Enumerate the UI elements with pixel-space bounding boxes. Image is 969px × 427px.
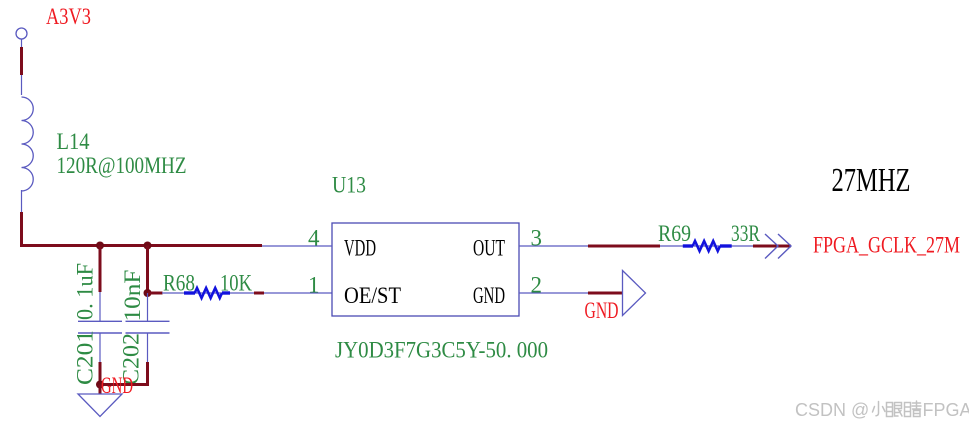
pin wire from R68 to U13 pin 1	[162, 292, 332, 294]
svg-text:0. 1uF: 0. 1uF	[73, 263, 98, 320]
svg-text:4: 4	[308, 225, 320, 250]
svg-text:U13: U13	[332, 173, 366, 198]
power port A3V3 terminal circle	[16, 28, 27, 39]
wire from R69 to output port	[753, 245, 791, 248]
wire from A3V3 terminal to L14	[21, 39, 23, 95]
op-amp U13 body	[332, 223, 519, 316]
wire stub from node to R68	[148, 292, 163, 295]
capacitor C202 symbol	[126, 293, 170, 363]
wire stub below C202	[146, 362, 149, 386]
wire stub to ground symbol	[99, 385, 102, 395]
ground symbol	[78, 394, 122, 417]
GND port arrow	[623, 271, 646, 316]
pin wire across R69	[660, 245, 755, 247]
wire from pin 3 to R69	[588, 245, 660, 248]
svg-text:10K: 10K	[220, 271, 252, 296]
svg-text:L14: L14	[57, 129, 90, 154]
svg-text:FPGA: FPGA	[923, 400, 969, 420]
inductor L14 symbol	[22, 97, 34, 191]
resistor R69 symbol	[683, 241, 732, 251]
svg-text:VDD: VDD	[344, 235, 376, 260]
svg-text:2: 2	[531, 272, 543, 297]
pin 4 wire	[262, 245, 332, 247]
svg-text:OUT: OUT	[473, 235, 505, 260]
wire stub down to R68/C202 node	[146, 246, 149, 294]
svg-text:GND: GND	[101, 373, 133, 398]
capacitor C201 symbol	[78, 292, 122, 363]
svg-text:GND: GND	[473, 283, 505, 308]
wire stub below C201	[99, 362, 102, 386]
watermark CSDN @xiaoyanjing FPGA	[795, 400, 969, 420]
svg-text:JY0D3F7G3C5Y-50. 000: JY0D3F7G3C5Y-50. 000	[335, 338, 548, 363]
svg-text:27MHZ: 27MHZ	[832, 162, 911, 199]
svg-text:33R: 33R	[731, 221, 760, 246]
junction dot at C201 branch	[96, 242, 104, 250]
svg-text:C201: C201	[73, 330, 98, 385]
resistor R68 symbol	[184, 288, 230, 298]
svg-text:A3V3: A3V3	[46, 4, 91, 29]
svg-text:3: 3	[531, 225, 543, 250]
junction dot at ground node	[96, 381, 104, 389]
svg-text:FPGA_GCLK_27M: FPGA_GCLK_27M	[813, 233, 960, 258]
svg-text:120R@100MHZ: 120R@100MHZ	[57, 153, 187, 178]
pin 3 wire	[519, 245, 590, 247]
junction dot at R68/C202 node	[144, 289, 152, 297]
ground wire joining C201 and C202	[100, 383, 149, 386]
svg-text:GND: GND	[585, 298, 619, 323]
svg-text:10nF: 10nF	[120, 270, 145, 322]
svg-text:R69: R69	[658, 221, 691, 246]
svg-text:OE/ST: OE/ST	[344, 283, 401, 308]
svg-text:1: 1	[308, 273, 320, 298]
wire stub at U13 pin 1	[254, 292, 264, 295]
wire from pin 2 to GND port	[588, 292, 623, 295]
svg-text:R68: R68	[163, 271, 195, 296]
svg-text:CSDN @: CSDN @	[795, 400, 869, 420]
wire stub down to C201	[99, 246, 102, 293]
wire from L14 down and right to U13 pin 4 (VDD net)	[22, 190, 263, 246]
output port chevrons	[765, 234, 791, 259]
junction dot at C202/R68 branch	[144, 242, 152, 250]
pin 2 wire	[519, 292, 590, 294]
